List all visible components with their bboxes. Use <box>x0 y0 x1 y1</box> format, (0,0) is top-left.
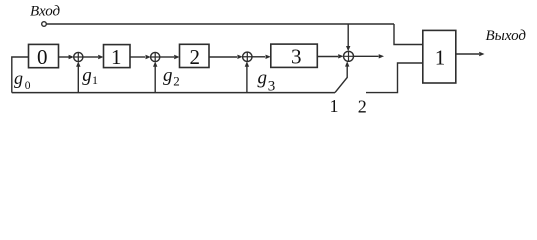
wire feedback bottom bus <box>12 92 335 94</box>
wire adder S1 to cell 1 <box>83 56 98 58</box>
svg-text:3: 3 <box>268 78 276 94</box>
wire output arrow <box>456 53 479 55</box>
svg-text:Выход: Выход <box>486 28 527 44</box>
wire tap g1 <box>77 67 79 93</box>
svg-text:1: 1 <box>92 73 98 87</box>
svg-text:2: 2 <box>358 97 367 117</box>
svg-text:2: 2 <box>189 45 200 69</box>
wire input top bus <box>47 23 395 25</box>
register cell 1 <box>104 45 131 68</box>
svg-text:2: 2 <box>173 73 180 88</box>
wire cell3 to adder S4 <box>317 56 338 58</box>
wire adder S3 to cell 3 <box>252 56 265 58</box>
wire adder S2 to cell 2 <box>160 56 174 58</box>
wire drop to adder S4 top <box>347 24 349 46</box>
svg-text:1: 1 <box>435 45 446 69</box>
adder S2 <box>146 52 160 61</box>
wire tap g2 <box>154 67 156 93</box>
svg-text:0: 0 <box>25 80 31 92</box>
svg-text:Вход: Вход <box>30 3 61 19</box>
wire tap g3 <box>246 67 248 93</box>
wire cell2 to adder S3 <box>209 56 237 58</box>
register cell 2 <box>180 44 210 67</box>
adder S3 <box>237 52 252 61</box>
svg-text:g: g <box>82 65 92 86</box>
svg-text:g: g <box>14 68 23 88</box>
node input terminal circle <box>42 22 47 27</box>
wire cell1 to adder S2 <box>130 56 145 58</box>
svg-text:1: 1 <box>330 96 339 116</box>
svg-text:g: g <box>163 65 173 86</box>
adder S4 <box>338 46 353 61</box>
svg-text:g: g <box>258 67 268 88</box>
register cell 3 <box>271 44 318 67</box>
register cell 0 <box>29 44 59 67</box>
key block K <box>423 30 456 83</box>
svg-text:0: 0 <box>37 45 48 69</box>
wire adder S4 output arrow <box>354 55 379 57</box>
adder S1 <box>69 52 83 61</box>
wire staircase to key upper input <box>394 24 423 45</box>
wire cell0 to adder S1 <box>59 56 73 58</box>
svg-text:1: 1 <box>111 45 122 69</box>
switch contact 2 path to key lower input <box>366 63 423 93</box>
svg-text:3: 3 <box>291 44 302 68</box>
wire g0 riser and feed into cell 0 <box>12 57 29 93</box>
switch lever contact 1 <box>335 67 347 93</box>
